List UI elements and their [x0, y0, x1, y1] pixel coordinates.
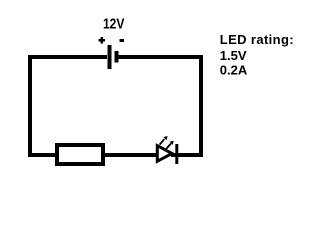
svg-text:12V: 12V: [103, 15, 125, 32]
svg-text:1.5V: 1.5V: [220, 48, 247, 63]
svg-text:0.2A: 0.2A: [220, 63, 248, 78]
svg-text:LED rating:: LED rating:: [220, 32, 294, 47]
